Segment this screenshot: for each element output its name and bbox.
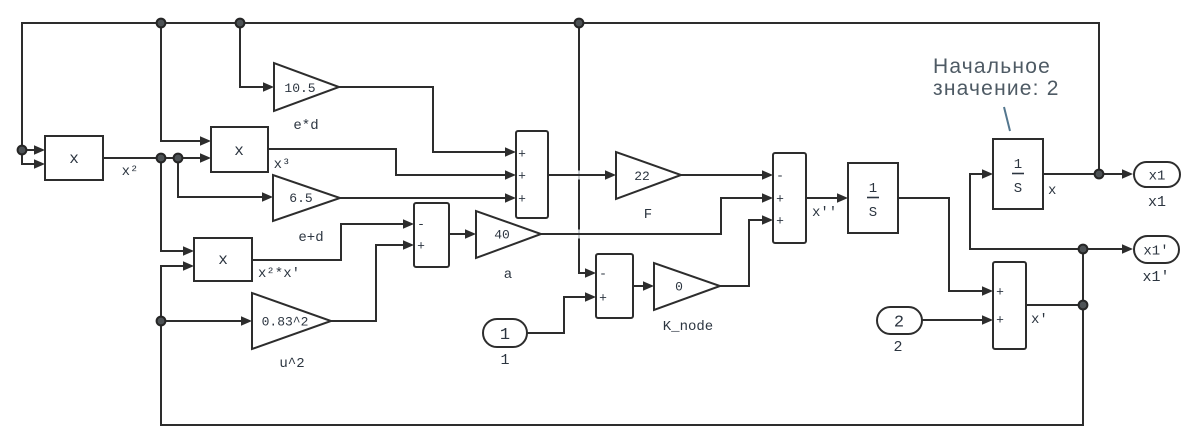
annotation callout line	[1004, 107, 1010, 131]
wire x3 output of P2 into sum S1 input 2	[268, 149, 516, 180]
svg-text:x1: x1	[1148, 194, 1166, 211]
svg-text:x²: x²	[122, 164, 139, 180]
svg-text:10.5: 10.5	[284, 81, 315, 96]
svg-text:x: x	[1048, 183, 1056, 199]
gain G6 0 (K_node)	[654, 263, 720, 310]
sum S4 (-+)	[596, 254, 633, 318]
gain G4 0.83^2	[252, 293, 331, 349]
gain G2 6.5	[273, 175, 340, 221]
svg-text:x1': x1'	[1142, 269, 1169, 286]
svg-text:x1': x1'	[1143, 244, 1168, 260]
svg-text:S: S	[1014, 181, 1022, 197]
node J6 on x2 wire	[157, 154, 166, 163]
node J5 on top line	[575, 19, 584, 28]
output port x1'	[1134, 236, 1179, 263]
output port x1	[1134, 162, 1180, 187]
svg-text:Начальное: Начальное	[933, 55, 1051, 78]
node J9 on bottom feedback	[157, 317, 166, 326]
svg-text:+: +	[518, 147, 526, 162]
wire x' from J10 into integrator U2	[970, 169, 1083, 249]
svg-text:+: +	[518, 169, 526, 184]
wire x2 output of P1 into P2	[103, 153, 211, 162]
sum S3 (-++)	[773, 153, 806, 243]
node J7 on x2 wire	[174, 154, 183, 163]
wire sum S5 output to node J8	[1026, 304, 1083, 306]
sum S1 (+++)	[516, 131, 548, 218]
wire x1 output (integrator U2 to port x1)	[1043, 169, 1133, 178]
wire sum S2 output into gain 40	[449, 229, 476, 238]
node J10	[1079, 245, 1088, 254]
svg-text:x': x'	[1031, 312, 1048, 328]
wire product P3 output into sum S2 minus input	[252, 219, 414, 260]
svg-text:-: -	[776, 169, 784, 184]
wire branch from J6 down into product P3 input 1	[161, 158, 194, 256]
wire bottom feedback x' (down, across bottom, up into product P3 input 2)	[161, 261, 1083, 425]
svg-text:+: +	[776, 192, 784, 207]
wire integrator U1 output into sum S5 plus input 1	[898, 198, 993, 296]
svg-text:x: x	[218, 251, 228, 269]
svg-text:S: S	[869, 205, 877, 221]
product P3 (x2*x')	[194, 238, 252, 281]
svg-text:0: 0	[675, 280, 683, 295]
svg-text:+: +	[996, 285, 1004, 300]
svg-text:x²*x': x²*x'	[258, 266, 300, 282]
gain G5 40	[476, 211, 541, 258]
gain G3 22	[616, 152, 681, 199]
svg-text:+: +	[417, 239, 425, 254]
svg-text:-: -	[599, 267, 607, 282]
svg-text:1: 1	[500, 352, 509, 369]
node J8	[1079, 301, 1088, 310]
source constant 1	[483, 319, 527, 347]
wire gain 10.5 output into sum S1 input 1	[339, 87, 516, 157]
product P1 (x*x)	[45, 136, 103, 180]
wire branch from J4 down into gain 10.5	[240, 23, 274, 92]
svg-text:F: F	[644, 207, 652, 223]
wire branch from J3 down into product P2 input 1	[161, 23, 211, 146]
svg-text:e*d: e*d	[293, 118, 318, 134]
svg-text:1: 1	[1014, 157, 1022, 173]
svg-text:0.83^2: 0.83^2	[262, 315, 309, 330]
svg-text:значение: 2: значение: 2	[933, 77, 1060, 100]
svg-text:1: 1	[869, 181, 877, 197]
svg-text:6.5: 6.5	[289, 191, 312, 206]
wire branch from J5 down into sum S4 minus input (with hops over crossing wires)	[579, 23, 596, 278]
svg-text:x³: x³	[274, 157, 291, 173]
svg-text:x: x	[69, 150, 79, 168]
svg-text:+: +	[996, 313, 1004, 328]
svg-text:2: 2	[893, 339, 902, 356]
wire gain 0 output into sum S3 plus input 3	[720, 215, 773, 286]
wire sum S3 output x'' into integrator U1	[806, 193, 848, 202]
svg-text:40: 40	[494, 228, 510, 243]
sum S5 (++) x'	[993, 262, 1026, 349]
wire source 1 into sum S4 plus input	[527, 292, 596, 333]
wire branch from J9 into gain 0.83^2	[161, 316, 252, 325]
sum S2 (-+)	[414, 203, 449, 267]
wire top feedback x (up, across top, down left side into product P1)	[22, 23, 1099, 174]
wire gain 40 output into sum S3 plus input 2	[541, 193, 773, 234]
node J4 on top line	[236, 19, 245, 28]
svg-text:-: -	[417, 217, 425, 232]
wire branch from J7 down into gain 6.5	[178, 158, 273, 202]
source constant 2	[877, 307, 922, 334]
svg-text:+: +	[776, 214, 784, 229]
node J1 top feedback takeoff	[1095, 170, 1104, 179]
wire sum S1 output into gain 22	[548, 170, 616, 179]
node J3 on top line	[157, 19, 166, 28]
wire sum S4 output into gain 0	[633, 281, 654, 290]
product P2 (x*x2)	[211, 127, 268, 172]
svg-text:1: 1	[500, 326, 510, 345]
wire gain 22 output into sum S3 minus input	[681, 170, 773, 179]
svg-text:2: 2	[894, 314, 904, 333]
integrator U1 1/S	[848, 163, 898, 233]
annotation text	[933, 55, 1060, 100]
svg-text:u^2: u^2	[279, 356, 304, 372]
svg-text:+: +	[518, 192, 526, 207]
wire gain 6.5 output into sum S1 input 3	[340, 193, 516, 202]
gain G1 10.5	[274, 63, 339, 111]
svg-text:22: 22	[634, 169, 650, 184]
svg-text:K_node: K_node	[663, 319, 713, 335]
wire x' up from J8 to J10	[1082, 249, 1084, 305]
svg-text:e+d: e+d	[298, 230, 323, 246]
wire gain 0.83^2 output into sum S2 plus input	[331, 240, 414, 321]
svg-text:x: x	[234, 142, 244, 160]
wire source 2 into sum S5 plus input 2	[922, 315, 993, 324]
wire x1' output (J10 to port x1')	[1083, 244, 1133, 253]
svg-text:x1: x1	[1149, 169, 1166, 185]
svg-text:+: +	[599, 291, 607, 306]
node J2 on left feedback at product P1 input	[18, 146, 27, 155]
svg-text:a: a	[504, 267, 512, 283]
integrator U2 1/S	[993, 139, 1043, 209]
svg-text:x'': x''	[812, 205, 837, 221]
